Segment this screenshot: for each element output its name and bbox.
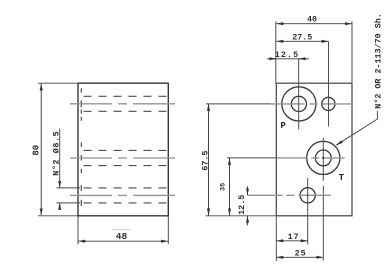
center line T vertical xyxy=(322,138,324,216)
dimension 48 extension lines xyxy=(78,217,168,245)
dimension 12.5 top line xyxy=(267,58,309,60)
o-ring label leader xyxy=(336,111,377,145)
port T counterbore circle xyxy=(307,141,340,174)
small top hole circle xyxy=(322,97,335,110)
hidden hole row 1 (P) dashed lines xyxy=(84,96,169,111)
dimension 25 line xyxy=(276,256,323,258)
dimension 17 line xyxy=(276,240,307,242)
svg-text:80: 80 xyxy=(31,145,41,156)
port P counterbore circle xyxy=(282,87,316,121)
center line small top hole vertical xyxy=(328,42,330,127)
dimension 12.5 right view line xyxy=(247,186,249,225)
port T center dot xyxy=(322,157,324,159)
dimension 35 line xyxy=(229,158,231,216)
svg-text:25: 25 xyxy=(295,249,307,259)
port P hole circle xyxy=(291,96,306,111)
extension line bottom hole vertical to 17 dim xyxy=(307,216,309,245)
dimension 12.5 top outside arrows xyxy=(269,58,307,60)
dimension 48 line xyxy=(78,240,168,242)
center line row 3 left view xyxy=(70,194,177,196)
drill end dashed verticals row 1 xyxy=(80,88,82,121)
center line bottom hole vertical xyxy=(307,178,309,216)
svg-text:48: 48 xyxy=(116,231,128,242)
row 3 extension lines to diameter dim xyxy=(57,188,81,203)
drill end dashed verticals row 3 xyxy=(80,185,82,206)
bottom small hole circle xyxy=(300,188,315,203)
center line T horizontal xyxy=(276,157,344,159)
svg-text:67.5: 67.5 xyxy=(200,151,210,171)
port T hole circle xyxy=(315,150,331,166)
svg-text:N°2 Ø8.5: N°2 Ø8.5 xyxy=(52,131,62,176)
svg-text:P: P xyxy=(281,121,286,131)
center line row 2 left view xyxy=(70,157,177,159)
block outline left view xyxy=(78,83,168,216)
svg-text:40: 40 xyxy=(307,15,317,25)
svg-text:35: 35 xyxy=(220,183,228,191)
extension line P row to 67.5 dim xyxy=(206,103,271,105)
dimension 80 vertical line xyxy=(40,84,42,216)
dimension 80 extension lines xyxy=(38,83,78,216)
extension line left edge below block xyxy=(275,217,277,261)
svg-text:17: 17 xyxy=(288,232,300,242)
extension line T row to 35 dim xyxy=(227,157,276,159)
label N°2 Ø8.5 leader line xyxy=(59,129,61,209)
svg-text:N°2 OR 2-113/70 Sh.: N°2 OR 2-113/70 Sh. xyxy=(374,13,384,109)
center line bottom hole horizontal xyxy=(248,194,332,196)
drill end dashed verticals row 2 xyxy=(80,142,82,173)
extension line T vertical to 25 dim xyxy=(322,216,324,261)
dimension 27.5 line xyxy=(276,40,328,42)
dimension 67.5 line xyxy=(208,104,210,216)
faint rule above text 48 xyxy=(113,229,131,231)
block outline right view xyxy=(276,83,352,216)
dimension 40 extension lines xyxy=(276,21,352,83)
bottom small hole center dot xyxy=(307,194,309,196)
svg-text:T: T xyxy=(339,173,345,183)
hidden hole row 2 (T) dashed lines xyxy=(84,150,169,165)
svg-text:12.5: 12.5 xyxy=(237,195,247,215)
svg-text:12.5: 12.5 xyxy=(275,50,300,60)
dimension 67.5 bottom extension line xyxy=(206,215,277,217)
dimension 40 line xyxy=(276,23,352,25)
svg-text:27.5: 27.5 xyxy=(292,33,312,43)
hidden hole row 3 dashed lines xyxy=(84,188,169,203)
center line P vertical xyxy=(298,59,300,129)
center line P row horizontal xyxy=(271,103,353,105)
center line row 1 left view xyxy=(70,103,177,105)
